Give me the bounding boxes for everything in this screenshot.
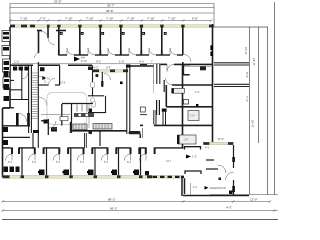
svg-text:32'-8": 32'-8" xyxy=(54,0,62,4)
svg-text:12'-0": 12'-0" xyxy=(250,198,258,202)
svg-text:4'-0: 4'-0 xyxy=(139,59,144,63)
svg-text:9'-0": 9'-0" xyxy=(106,66,111,70)
svg-text:96'-2": 96'-2" xyxy=(110,207,118,211)
svg-text:8'-2: 8'-2 xyxy=(8,161,13,164)
svg-text:7'-10": 7'-10" xyxy=(127,17,135,21)
svg-text:28'-8": 28'-8" xyxy=(106,9,114,13)
svg-text:36'-7": 36'-7" xyxy=(107,4,115,8)
svg-text:24'-7: 24'-7 xyxy=(166,160,172,163)
svg-text:7'-10": 7'-10" xyxy=(65,17,73,21)
svg-text:8'-0": 8'-0" xyxy=(218,137,224,141)
svg-text:86'-2": 86'-2" xyxy=(108,198,116,202)
svg-text:1'-8: 1'-8 xyxy=(119,59,124,63)
svg-text:8'-2: 8'-2 xyxy=(56,161,61,164)
svg-text:1'-9": 1'-9" xyxy=(184,139,189,142)
svg-text:7'-0": 7'-0" xyxy=(40,17,46,21)
svg-text:4'-2: 4'-2 xyxy=(96,59,101,63)
svg-text:4'-0": 4'-0" xyxy=(226,206,232,210)
svg-text:14'-6: 14'-6 xyxy=(60,82,66,85)
svg-text:24'-0": 24'-0" xyxy=(251,120,255,128)
svg-text:7'-10": 7'-10" xyxy=(106,17,114,21)
svg-text:7'-10": 7'-10" xyxy=(147,17,155,21)
svg-text:10'-0": 10'-0" xyxy=(244,47,248,55)
svg-text:1'-3": 1'-3" xyxy=(81,59,87,63)
svg-text:8'-2: 8'-2 xyxy=(80,161,85,164)
svg-text:9'-0": 9'-0" xyxy=(245,72,249,78)
svg-text:GENERATOR: GENERATOR xyxy=(210,186,226,190)
svg-text:8'-2: 8'-2 xyxy=(32,161,37,164)
svg-text:1'-9": 1'-9" xyxy=(190,115,195,118)
svg-text:4'-2: 4'-2 xyxy=(205,146,210,150)
svg-text:8'-2: 8'-2 xyxy=(127,161,132,164)
svg-text:4'-0: 4'-0 xyxy=(193,186,198,189)
svg-text:7'-10": 7'-10" xyxy=(20,17,28,21)
svg-text:7'-10": 7'-10" xyxy=(86,17,94,21)
svg-text:1'-0: 1'-0 xyxy=(14,59,19,63)
svg-text:24'-0": 24'-0" xyxy=(252,58,256,66)
svg-text:1'-3": 1'-3" xyxy=(192,154,197,158)
svg-text:7'-10": 7'-10" xyxy=(168,17,176,21)
svg-text:9'-8": 9'-8" xyxy=(192,17,198,21)
svg-text:8'-2: 8'-2 xyxy=(104,161,109,164)
svg-text:4'-0": 4'-0" xyxy=(195,91,200,94)
svg-text:7'-2": 7'-2" xyxy=(245,96,249,102)
